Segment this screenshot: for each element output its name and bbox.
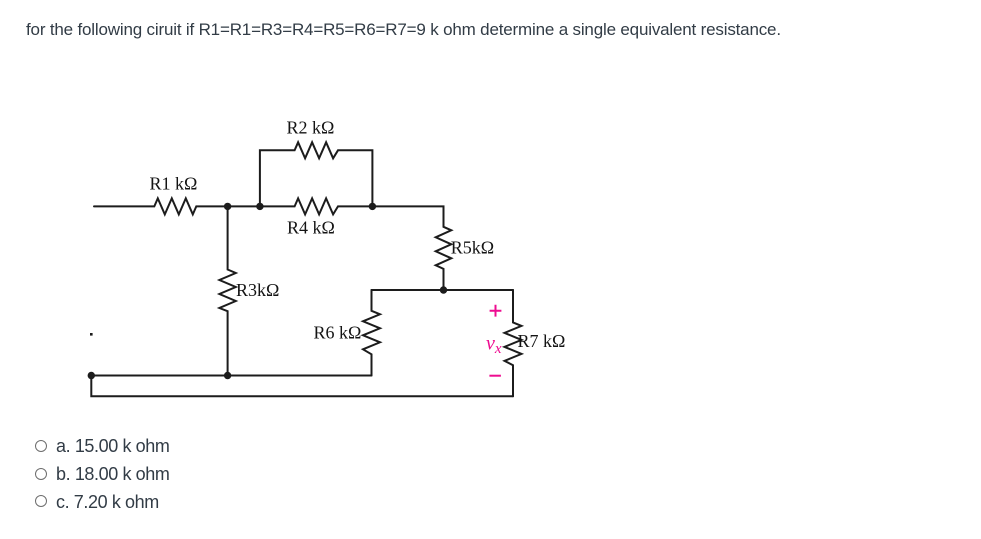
svg-text:R4 kΩ: R4 kΩ <box>287 218 335 238</box>
svg-text:R5kΩ: R5kΩ <box>451 238 494 258</box>
svg-text:R3kΩ: R3kΩ <box>236 280 279 300</box>
svg-text:R2 kΩ: R2 kΩ <box>287 118 335 138</box>
svg-text:vx: vx <box>486 333 502 358</box>
svg-text:R6 kΩ: R6 kΩ <box>314 323 362 343</box>
svg-text:R1 kΩ: R1 kΩ <box>150 174 198 194</box>
svg-text:R7 kΩ: R7 kΩ <box>518 331 566 351</box>
